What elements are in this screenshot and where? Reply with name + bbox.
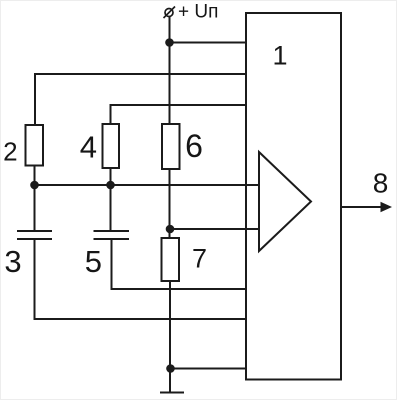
- resistor 7: [162, 238, 180, 281]
- capacitor 3: [17, 231, 52, 239]
- resistor 4: [103, 124, 120, 168]
- node power junction: [165, 38, 174, 47]
- wire: [110, 168, 112, 231]
- svg-text:4: 4: [80, 130, 97, 165]
- wire: [35, 184, 260, 186]
- node B: [106, 181, 115, 190]
- power terminal +Un: [164, 7, 176, 19]
- wire: [111, 105, 247, 124]
- wire: [169, 281, 171, 392]
- wire: [169, 17, 171, 125]
- svg-text:8: 8: [373, 168, 389, 199]
- wire: [112, 239, 247, 289]
- wire: [246, 184, 259, 186]
- wire: [169, 169, 171, 238]
- IC block 1: [246, 13, 341, 380]
- wire: [35, 239, 247, 319]
- node A: [30, 181, 39, 190]
- wire: [246, 228, 259, 230]
- svg-text:7: 7: [192, 244, 207, 274]
- capacitor 5: [94, 231, 130, 239]
- wire: [34, 166, 36, 232]
- wire: [171, 368, 247, 370]
- svg-text:+ Uп: + Uп: [178, 2, 218, 23]
- op-amp triangle: [259, 152, 311, 251]
- wire: [35, 74, 246, 125]
- resistor 6: [162, 124, 180, 169]
- svg-text:6: 6: [185, 128, 203, 164]
- resistor 2: [26, 125, 44, 166]
- svg-text:2: 2: [3, 137, 17, 167]
- wire: [170, 228, 259, 230]
- node C: [166, 225, 175, 234]
- svg-text:1: 1: [272, 41, 287, 71]
- wire: [170, 42, 247, 44]
- svg-text:5: 5: [85, 244, 102, 279]
- svg-text:3: 3: [4, 244, 21, 279]
- node D: [166, 364, 175, 373]
- wire output 8: [341, 202, 392, 212]
- ground: [160, 392, 184, 394]
